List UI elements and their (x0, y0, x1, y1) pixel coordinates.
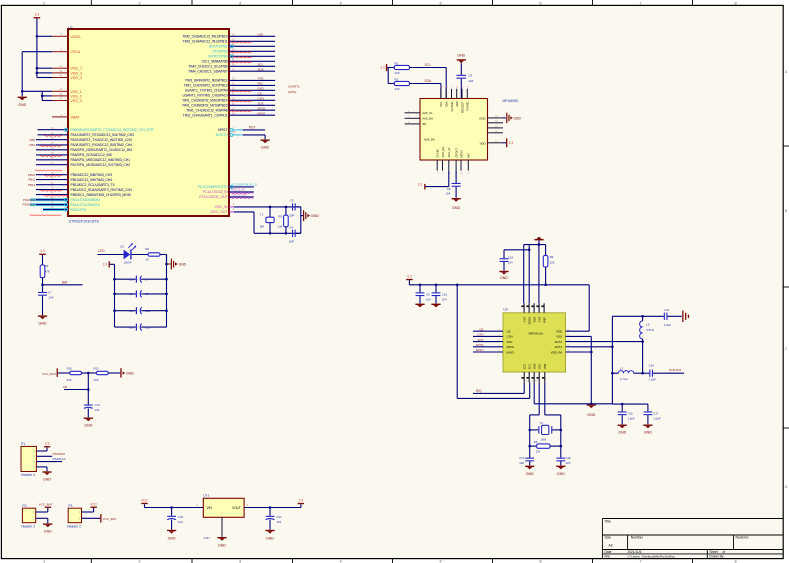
svg-text:VSS: VSS (522, 317, 526, 323)
wire BAT net (43, 281, 83, 285)
wire NRF VSS to ground (566, 336, 593, 405)
ground at NRF VSS (587, 404, 596, 417)
power port 3.3 regulator output (298, 498, 304, 507)
net label LED (98, 249, 124, 254)
svg-text:AD: AD (63, 385, 68, 389)
wire and pin PB2 (209, 44, 275, 48)
capacitor C11 (664, 308, 682, 327)
wire IRQ net (473, 383, 524, 394)
svg-text:RESV: RESV (459, 150, 463, 158)
svg-text:20P: 20P (289, 239, 294, 243)
wire and pin PB10 (28, 183, 115, 187)
pin VSSA (52, 50, 81, 55)
svg-text:GND: GND (479, 116, 485, 120)
svg-text:I2C1_SMBA/PB5: I2C1_SMBA/PB5 (202, 60, 227, 64)
NRF top pin stubs (521, 303, 546, 324)
power port 3.3 at MPU VDD (503, 138, 513, 147)
svg-text:BAT: BAT (62, 281, 68, 285)
svg-text:BOOT1/PB2: BOOT1/PB2 (209, 45, 228, 49)
svg-text:IRQ: IRQ (476, 389, 482, 393)
wire and pin PA9 (185, 86, 275, 92)
capacitor C20 (167, 508, 183, 530)
capacitor C12 (115, 307, 167, 314)
wire and pin PA7 (36, 163, 130, 167)
svg-text:PB13: PB13 (28, 183, 36, 187)
svg-text:VDD_2: VDD_2 (71, 71, 83, 75)
wire and pin PA3 (30, 143, 133, 147)
svg-text:INT: INT (422, 122, 427, 126)
svg-text:STM32F103C8T6: STM32F103C8T6 (69, 219, 99, 223)
wire XC2 branch (545, 383, 562, 458)
svg-text:IREF: IREF (542, 316, 546, 322)
wire and pin PA14 (23, 203, 101, 207)
svg-text:22K: 22K (94, 378, 99, 382)
svg-text:LV1: LV1 (203, 494, 209, 498)
svg-text:104: 104 (446, 191, 451, 195)
svg-text:GND: GND (513, 116, 521, 120)
svg-text:GND: GND (84, 424, 92, 428)
title block (602, 519, 783, 559)
svg-text:B: B (785, 209, 788, 213)
svg-text:3.3: 3.3 (103, 263, 108, 267)
wire shunt cap node (612, 403, 648, 406)
wire PSWDIO (36, 452, 65, 457)
svg-text:2021/11/6: 2021/11/6 (628, 550, 642, 554)
pin VDD_2 (52, 71, 82, 76)
svg-text:C4: C4 (145, 277, 149, 281)
wire XC node to shunt caps (534, 383, 612, 404)
svg-text:104: 104 (276, 520, 281, 524)
svg-text:PB5/I2C1_SMBA/TIM3_CH2/SPI3_MO: PB5/I2C1_SMBA/TIM3_CH2/SPI3_MOSI (71, 193, 131, 197)
power port 3.3 at cap bank (103, 261, 115, 267)
wire and pin PB5 (36, 193, 131, 197)
svg-text:JTDO/PB3: JTDO/PB3 (212, 50, 228, 54)
svg-text:MPU6050: MPU6050 (503, 99, 519, 103)
svg-text:TIM4_CH1/I2C1_SCL/PB6: TIM4_CH1/I2C1_SCL/PB6 (188, 65, 227, 69)
svg-text:PSWCLK: PSWCLK (23, 203, 36, 207)
svg-text:SDA: SDA (425, 79, 432, 83)
svg-text:PA15/JTDI: PA15/JTDI (71, 208, 87, 212)
svg-text:C13: C13 (95, 403, 101, 407)
svg-text:GND: GND (557, 472, 565, 476)
earth ground at C11 (682, 311, 689, 322)
svg-text:C10: C10 (442, 292, 448, 296)
svg-text:PC13/NRF24L01_CE: PC13/NRF24L01_CE (232, 183, 258, 187)
wire match top node (611, 315, 664, 404)
svg-text:3.3: 3.3 (40, 249, 45, 253)
svg-text:1.0pF: 1.0pF (649, 378, 657, 382)
svg-text:3.3: 3.3 (45, 442, 50, 446)
svg-text:104: 104 (95, 408, 100, 412)
wire OSC_IN (214, 204, 300, 209)
svg-text:C13: C13 (145, 325, 151, 329)
svg-text:VSS_2: VSS_2 (71, 94, 82, 98)
svg-text:PA5/SPI1_SCK/ADC12_IN5: PA5/SPI1_SCK/ADC12_IN5 (71, 153, 112, 157)
wire and pin PA10 (183, 91, 276, 97)
wire and pin PB11 (36, 188, 132, 192)
ground below C17 (643, 425, 652, 435)
svg-text:SCK: SCK (477, 338, 483, 342)
crystal Y2 (530, 421, 561, 441)
svg-text:NRST: NRST (218, 128, 228, 132)
svg-text:3.3: 3.3 (509, 141, 514, 145)
svg-text:GND: GND (266, 537, 274, 541)
power port 3.3 at MPU pullups (380, 64, 387, 71)
svg-text:Size: Size (605, 535, 612, 539)
svg-text:7: 7 (639, 1, 641, 5)
svg-text:C4: C4 (289, 225, 293, 229)
svg-text:TIM1_BKIN/SPI2_NSS/PB12: TIM1_BKIN/SPI2_NSS/PB12 (185, 79, 228, 83)
svg-text:PB11: PB11 (28, 178, 35, 182)
svg-text:R12: R12 (94, 367, 100, 371)
svg-text:PSWCLK: PSWCLK (53, 457, 67, 461)
wire and pin PA15 (43, 208, 86, 212)
svg-text:VSS: VSS (537, 317, 541, 323)
svg-text:3: 3 (239, 1, 241, 5)
IC LV1 regulator 1117 (203, 494, 244, 540)
wire crystal gnd node (296, 207, 303, 233)
power port VCC at regulator (141, 498, 148, 507)
ground below divider cap (84, 418, 93, 428)
svg-text:VDDA: VDDA (71, 35, 82, 39)
svg-text:PSWDIO: PSWDIO (23, 198, 36, 202)
wire PC13 row (198, 183, 258, 190)
svg-text:P2: P2 (22, 504, 26, 508)
wire ANT2 (566, 340, 644, 343)
IC U3 NRF24L01 (503, 308, 566, 372)
svg-text:VSS_3: VSS_3 (71, 99, 82, 103)
svg-text:1M: 1M (278, 225, 283, 229)
inductor L3 (640, 316, 654, 374)
svg-text:Header 2: Header 2 (21, 524, 35, 528)
capacitor C17 (644, 404, 661, 424)
connector P1 Header 4 (21, 442, 36, 477)
capacitor C10 (432, 285, 448, 304)
svg-text:VSS: VSS (538, 364, 542, 370)
svg-text:LED: LED (98, 249, 105, 253)
wire and pin PB13 (184, 82, 276, 88)
svg-text:SDA: SDA (258, 67, 264, 71)
net label USART1 GPS note (288, 85, 300, 94)
pin VSS_2 (52, 94, 82, 99)
svg-text:PC15-OSC32_OUT: PC15-OSC32_OUT (199, 195, 227, 199)
svg-text:MISO: MISO (507, 350, 515, 354)
svg-text:BOOT0: BOOT0 (216, 133, 228, 137)
capacitor C8 (446, 171, 461, 198)
wire VDD_PA (566, 351, 592, 353)
svg-text:PB0: PB0 (30, 138, 36, 142)
svg-text:CSN: CSN (507, 335, 513, 339)
svg-text:GND: GND (311, 214, 320, 218)
ground below C21 (265, 530, 274, 541)
ground below C7 (38, 315, 47, 325)
svg-text:VDD: VDD (543, 364, 547, 370)
svg-text:U3: U3 (503, 308, 508, 312)
wire regulator output (244, 504, 301, 509)
capacitor C21 (266, 508, 282, 530)
svg-text:VCC: VCC (90, 503, 97, 507)
svg-text:SCK: SCK (258, 101, 264, 105)
svg-text:PA4/SPI1_NSS/USART2_CK/ADC12_I: PA4/SPI1_NSS/USART2_CK/ADC12_IN4 (71, 148, 133, 152)
NRF right pin names (551, 329, 571, 354)
capacitor C13 (115, 324, 167, 331)
wire and pin PA0 (38, 128, 155, 132)
svg-text:3.3: 3.3 (407, 274, 412, 278)
svg-text:C14: C14 (649, 363, 655, 367)
svg-text:FSYNC: FSYNC (466, 101, 470, 110)
svg-text:R6: R6 (145, 247, 149, 251)
capacitor C15 (519, 456, 534, 465)
svg-text:VDD_3: VDD_3 (71, 76, 83, 80)
svg-text:3.3: 3.3 (380, 66, 385, 70)
svg-text:XC1: XC1 (528, 364, 532, 370)
svg-text:C11: C11 (664, 308, 669, 312)
svg-text:CE: CE (479, 327, 483, 331)
svg-text:VDD: VDD (532, 317, 536, 323)
svg-text:R2: R2 (395, 77, 399, 81)
ground below C15 (525, 466, 534, 476)
ground below C10 (431, 304, 440, 308)
svg-text:PA6/SPI1_MISO/ADC12_IN6/TIM3_C: PA6/SPI1_MISO/ADC12_IN6/TIM3_CH1 (71, 158, 131, 162)
wire and pin PB5 (202, 59, 275, 63)
wire ANT1 (566, 346, 614, 349)
svg-text:OSC_OUT: OSC_OUT (211, 210, 229, 214)
svg-text:2: 2 (138, 1, 140, 5)
wire and pin PB3 (212, 49, 275, 53)
ground below C18 (556, 466, 565, 476)
svg-text:10K: 10K (395, 71, 400, 75)
svg-text:R10: R10 (67, 367, 73, 371)
svg-text:USART1_TX/TIM1_CH2/PA9: USART1_TX/TIM1_CH2/PA9 (185, 89, 228, 93)
MPU right pins (479, 116, 503, 145)
svg-text:VSS_1: VSS_1 (71, 90, 82, 94)
svg-text:C17: C17 (653, 411, 659, 415)
svg-text:104: 104 (178, 520, 183, 524)
svg-text:LED: LED (258, 32, 265, 36)
svg-text:3.3: 3.3 (35, 13, 40, 17)
capacitor C14 (643, 363, 684, 381)
svg-text:CSN: CSN (258, 96, 264, 100)
wire VSSA net (22, 52, 52, 97)
svg-text:AUX_DA: AUX_DA (422, 117, 433, 121)
ground at U1 VSS (18, 97, 27, 107)
svg-text:4: 4 (339, 1, 341, 5)
ground at MPU GND pin (503, 113, 521, 123)
capacitor C6 (457, 73, 474, 98)
wire and pin PA1 (38, 133, 135, 137)
svg-text:C:\Users\..\Desktop\MiniFly.Sc: C:\Users\..\Desktop\MiniFly.SchDoc (628, 555, 676, 559)
svg-text:VLOGIC: VLOGIC (450, 101, 454, 111)
svg-text:22P: 22P (566, 461, 571, 465)
svg-text:SCL: SCL (439, 101, 443, 107)
svg-text:L2: L2 (620, 366, 624, 370)
resistor R6 (132, 247, 167, 261)
svg-text:Sheet: Sheet (710, 550, 718, 554)
wire and pin PA13 (23, 198, 100, 202)
svg-text:SDA: SDA (445, 101, 449, 107)
svg-text:AUX_CL: AUX_CL (447, 147, 451, 158)
wire NRF VDD to rail (566, 285, 590, 331)
wire PSWCLK (36, 457, 66, 462)
ground at BOOT0 (261, 140, 270, 150)
svg-text:VIN: VIN (207, 506, 213, 510)
svg-text:MOSI: MOSI (476, 343, 484, 347)
svg-text:C19: C19 (508, 255, 514, 259)
capacitor C18 (556, 456, 571, 465)
connector P2 Header 2 (21, 504, 36, 529)
svg-text:19 20 21 22: 19 20 21 22 (526, 381, 538, 383)
svg-text:VBAT: VBAT (71, 115, 81, 119)
svg-text:VOUT: VOUT (232, 506, 241, 510)
wire and pin PA4 (36, 148, 132, 152)
resistor R3 (278, 206, 288, 235)
svg-text:1117: 1117 (204, 536, 211, 540)
svg-text:Date:: Date: (605, 550, 613, 554)
svg-text:PA3/USART2_RX/ADC12_IN3/TIM2_C: PA3/USART2_RX/ADC12_IN3/TIM2_CH4 (71, 143, 133, 147)
net label VCC_BAT at R10 (42, 368, 70, 377)
wire and pin PB11 (183, 39, 276, 43)
svg-text:REGOUT: REGOUT (460, 101, 464, 113)
svg-text:PA7/SPI1_MOSI/ADC12_IN7/TIM3_C: PA7/SPI1_MOSI/ADC12_IN7/TIM3_CH2 (71, 163, 131, 167)
svg-text:10u: 10u (129, 325, 134, 329)
svg-text:GND: GND (126, 371, 134, 375)
svg-text:C12: C12 (145, 309, 151, 313)
svg-text:MOSI: MOSI (258, 106, 266, 110)
svg-text:R4: R4 (45, 264, 49, 268)
svg-text:PA2/USART2_TX/ADC12_IN2/TIM2_C: PA2/USART2_TX/ADC12_IN2/TIM2_CH3 (71, 138, 132, 142)
svg-text:16M: 16M (540, 437, 546, 441)
svg-text:TIM1_CH1/ADC12_IN9/PA8: TIM1_CH1/ADC12_IN9/PA8 (186, 109, 227, 113)
ground above C6 (457, 53, 466, 74)
svg-text:10u: 10u (129, 292, 134, 296)
svg-text:VDD_1: VDD_1 (71, 67, 83, 71)
svg-text:Drawn By:: Drawn By: (710, 555, 725, 559)
NRF left pins CE CSN SCK MOSI MISO (473, 327, 515, 354)
wire NRF top bus (524, 243, 546, 303)
wire and pin PA2 (30, 138, 132, 142)
resistor R5 (530, 440, 561, 454)
capacitor C4 (289, 225, 296, 243)
svg-text:VDD: VDD (480, 141, 486, 145)
wire and pin PB7 (188, 67, 275, 73)
svg-text:TXD: TXD (258, 77, 265, 81)
svg-text:PA14/JTCK/SWCLK: PA14/JTCK/SWCLK (71, 203, 101, 207)
capacitor C5 (289, 199, 296, 218)
ground below C19 (499, 271, 508, 280)
svg-text:AD0: AD0 (455, 101, 459, 107)
wire and pin PB14 (182, 96, 275, 102)
svg-text:TIM2_CH3/ADC12_IN12/PB10: TIM2_CH3/ADC12_IN12/PB10 (182, 35, 227, 39)
svg-text:OSC32_OUT: OSC32_OUT (232, 193, 248, 197)
svg-text:R3: R3 (278, 214, 282, 218)
svg-text:DVDD: DVDD (527, 317, 531, 325)
pin NRST with RST label (218, 125, 265, 132)
svg-text:AUX_CL: AUX_CL (422, 111, 433, 115)
wire cap bank rails (113, 255, 168, 328)
svg-text:PB1/ADC12_IN9/TIM3_CH4: PB1/ADC12_IN9/TIM3_CH4 (71, 178, 113, 182)
wire VDD rails (36, 67, 52, 78)
MPU left pins (405, 111, 435, 142)
wire regulator gnd pin (217, 517, 226, 547)
svg-text:Header 4: Header 4 (21, 473, 35, 477)
svg-text:GND: GND (500, 276, 508, 280)
wire and pin PA5 (36, 153, 112, 157)
svg-text:GND: GND (587, 413, 595, 417)
svg-text:GND: GND (44, 530, 52, 534)
capacitor C16 (618, 404, 635, 424)
svg-text:RXD: RXD (258, 86, 265, 90)
svg-text:P1: P1 (21, 442, 25, 446)
wire VDD feed to NRF pin (457, 285, 530, 399)
svg-text:D1: D1 (120, 244, 124, 248)
svg-text:C7: C7 (48, 291, 52, 295)
svg-text:SCK: SCK (507, 340, 513, 344)
svg-text:10u: 10u (129, 277, 134, 281)
wire SDA net (410, 79, 441, 98)
svg-text:USART1: USART1 (288, 85, 300, 89)
ground at MPU bottom (452, 198, 461, 210)
capacitor C19 (500, 249, 531, 271)
resistor R4 (40, 264, 50, 292)
svg-text:CE: CE (507, 330, 511, 334)
svg-text:VCC_BAT: VCC_BAT (39, 503, 53, 507)
IC U2 MPU6050 (420, 99, 518, 161)
svg-text:L3: L3 (646, 322, 650, 326)
svg-text:104: 104 (442, 298, 447, 302)
cyan net highlight bands (30, 198, 68, 211)
svg-text:GND: GND (644, 430, 652, 434)
svg-text:C20: C20 (178, 515, 184, 519)
svg-text:10u: 10u (129, 309, 134, 313)
pin VBAT (52, 115, 80, 120)
ground right of LED (165, 255, 186, 270)
wire PC15 row (199, 193, 253, 200)
svg-text:1M: 1M (536, 450, 541, 454)
svg-text:C5: C5 (145, 292, 149, 296)
svg-text:TIM4_CH2/I2C1_SDA/PB7: TIM4_CH2/I2C1_SDA/PB7 (188, 70, 228, 74)
svg-text:TIM1_CH1N/SPI2_SCK/PB13: TIM1_CH1N/SPI2_SCK/PB13 (184, 84, 228, 88)
svg-text:104: 104 (508, 261, 513, 265)
pin VSS_3 (52, 98, 82, 103)
svg-text:CE: CE (258, 91, 262, 95)
power port 3.3 at U1 (34, 13, 41, 37)
IC U1 STM32F103C8T6 (68, 26, 229, 223)
wire and pin PA6 (36, 158, 130, 162)
svg-text:GND: GND (179, 262, 187, 266)
svg-text:PCB ANT: PCB ANT (669, 368, 682, 372)
svg-text:PB10: PB10 (28, 173, 36, 177)
wire OSC_OUT (211, 209, 301, 233)
svg-text:GND: GND (43, 477, 51, 481)
capacitor C9 (416, 285, 431, 304)
svg-text:R1: R1 (395, 61, 399, 65)
svg-text:6.8nH: 6.8nH (646, 328, 654, 332)
svg-text:GND: GND (261, 145, 269, 149)
svg-text:Header 2: Header 2 (67, 524, 81, 528)
svg-text:VDD_PA: VDD_PA (551, 350, 562, 354)
ground at crystal (303, 210, 319, 221)
no-connect zigzag row PB2 (35, 169, 62, 172)
svg-text:RST: RST (249, 125, 255, 129)
svg-text:VCC: VCC (141, 498, 148, 502)
wire VSS rails (21, 90, 52, 101)
svg-text:1.5pF: 1.5pF (628, 417, 635, 421)
svg-text:3.3: 3.3 (418, 182, 423, 186)
svg-text:C16: C16 (628, 411, 634, 415)
wire P1 pin1 to 3.3 (36, 442, 50, 451)
svg-text:Revision: Revision (736, 535, 749, 539)
svg-text:8: 8 (734, 1, 736, 5)
